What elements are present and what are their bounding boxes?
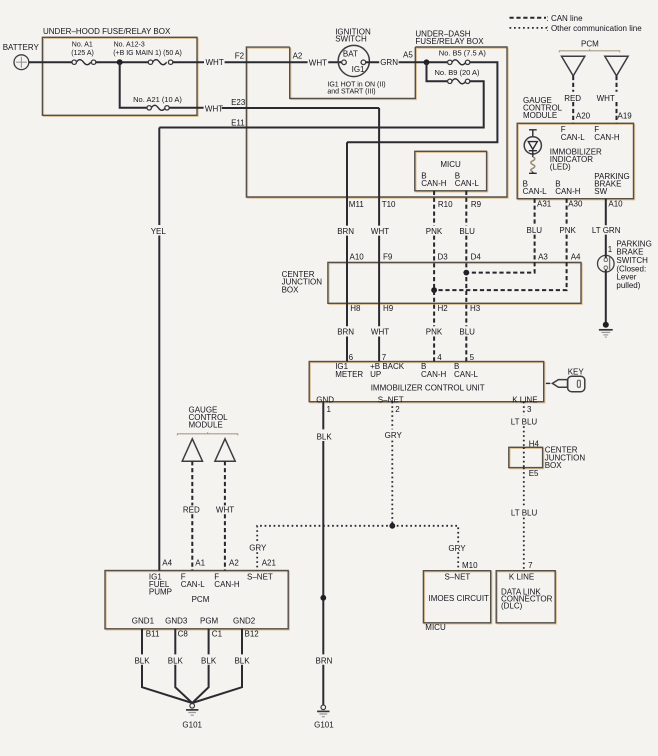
svg-text:H9: H9: [383, 304, 394, 313]
svg-text:K LINE: K LINE: [512, 396, 537, 405]
svg-text:2: 2: [395, 405, 400, 414]
svg-text:GND1: GND1: [132, 617, 155, 626]
svg-text:WHT: WHT: [371, 227, 389, 236]
svg-text:BOX: BOX: [545, 461, 563, 470]
PCM box (bottom): [105, 571, 288, 629]
wire A21 branch from junction: [120, 62, 147, 108]
svg-text:F2: F2: [235, 52, 245, 61]
svg-text:7: 7: [528, 561, 533, 570]
svg-text:BLK: BLK: [168, 656, 184, 665]
svg-text:PCM: PCM: [581, 39, 599, 48]
svg-text:WHT: WHT: [216, 506, 234, 515]
svg-text:LT BLU: LT BLU: [511, 509, 538, 518]
wire PNK MICU R10 to pin 4 (CAN): [433, 191, 435, 362]
wire LT BLU K LINE pin 3 to H4 (other comm): [523, 402, 525, 448]
wire B9 branch: [427, 62, 448, 81]
svg-text:E23: E23: [231, 98, 246, 107]
svg-text:D4: D4: [471, 253, 482, 262]
under-hood fuse/relay box: [42, 37, 197, 115]
svg-text:C8: C8: [178, 629, 189, 638]
svg-text:6: 6: [349, 353, 354, 362]
svg-text:B12: B12: [245, 629, 260, 638]
svg-text:G101: G101: [182, 720, 202, 729]
immobilizer control unit box: [309, 362, 544, 402]
wire WHT gauge control module to PCM A2 (CAN): [224, 461, 226, 570]
wire BLU MICU R9 to pin 5 (CAN): [465, 191, 467, 362]
wire fuse B9 output to E11 YEL feed: [159, 81, 483, 127]
svg-text:SWITCH: SWITCH: [335, 35, 367, 44]
wire YEL E11 down to PCM IG1 FUEL PUMP A4: [158, 128, 160, 571]
wire BLU A31 to A3 (CAN): [466, 199, 534, 273]
svg-text:F9: F9: [383, 253, 393, 262]
svg-text:YEL: YEL: [151, 227, 167, 236]
svg-text:No. A21 (10 A): No. A21 (10 A): [133, 95, 182, 104]
svg-text:(+B IG MAIN 1) (50 A): (+B IG MAIN 1) (50 A): [113, 50, 182, 57]
svg-text:WHT: WHT: [597, 94, 615, 103]
svg-text:and START (III): and START (III): [327, 89, 375, 96]
svg-text:R9: R9: [471, 200, 482, 209]
svg-text:A4: A4: [162, 558, 172, 567]
svg-text:FUSE/RELAY BOX: FUSE/RELAY BOX: [415, 37, 484, 46]
svg-text:A2: A2: [229, 558, 239, 567]
ground G101 right: [317, 705, 329, 717]
svg-text:No. B9 (20 A): No. B9 (20 A): [435, 68, 481, 77]
BOXES: [44, 38, 635, 629]
center junction box: [328, 262, 581, 303]
wire BLK PCM C8 to G101: [175, 629, 192, 703]
svg-text:A20: A20: [576, 112, 591, 121]
svg-text:WHT: WHT: [206, 58, 224, 67]
svg-text:CAN-L: CAN-L: [454, 370, 479, 379]
ground G101 left: [186, 704, 198, 716]
svg-text:BLK: BLK: [317, 432, 333, 441]
fuse A1: [72, 60, 96, 65]
svg-text:PGM: PGM: [200, 617, 219, 626]
svg-text:BLK: BLK: [234, 656, 250, 665]
svg-text:BLU: BLU: [459, 227, 475, 236]
svg-text:(DLC): (DLC): [501, 602, 523, 611]
svg-text:IMOES CIRCUIT: IMOES CIRCUIT: [429, 594, 490, 603]
svg-text:No. B5 (7.5 A): No. B5 (7.5 A): [439, 49, 487, 58]
MICU box (top): [415, 151, 487, 191]
wire parking brake switch to ground: [605, 255, 607, 323]
svg-text:3: 3: [527, 405, 532, 414]
wire BLK immobilizer GND pin 1 to G101: [322, 402, 324, 705]
svg-text:D3: D3: [438, 253, 449, 262]
svg-text:PCM: PCM: [192, 595, 210, 604]
svg-text:BRN: BRN: [316, 656, 333, 665]
op-amp style triangle gauge control module CAN-H: [215, 439, 235, 461]
svg-text:IMMOBILIZER CONTROL UNIT: IMMOBILIZER CONTROL UNIT: [371, 384, 485, 393]
wire BLK PCM B12 to G101: [192, 629, 242, 703]
svg-text:R10: R10: [438, 200, 453, 209]
svg-text:MICU: MICU: [440, 160, 461, 169]
svg-text:S–NET: S–NET: [445, 572, 471, 581]
junction under-hood feed: [117, 59, 123, 65]
svg-text:METER: METER: [335, 370, 363, 379]
wire WHT fuse A21 to E23/T10: [169, 107, 379, 109]
DASHES: [192, 18, 616, 571]
data link connector (DLC) box: [496, 571, 555, 623]
svg-text:GND2: GND2: [233, 617, 256, 626]
svg-text:GRY: GRY: [385, 431, 403, 440]
svg-text:E5: E5: [529, 469, 539, 478]
svg-text:4: 4: [437, 353, 442, 362]
wire GRY S-NET to PCM A21 (other comm): [257, 526, 392, 571]
svg-text:PNK: PNK: [559, 226, 576, 235]
svg-text:CAN-L: CAN-L: [561, 133, 586, 142]
wire fuse B5 output down-left to M11: [347, 62, 497, 142]
svg-text:H3: H3: [470, 304, 481, 313]
svg-text:UP: UP: [370, 370, 381, 379]
junction A5 node: [424, 59, 430, 65]
center junction box H4/E5 (small): [509, 447, 543, 467]
svg-text:BOX: BOX: [282, 285, 300, 294]
junction CAN-H net in center junction box: [431, 287, 437, 293]
op-amp style triangle gauge control module CAN-L: [182, 439, 202, 461]
wire BRN M11 down to IG1 METER pin 6: [346, 142, 348, 361]
svg-text:A1: A1: [195, 558, 205, 567]
svg-text:A19: A19: [618, 112, 633, 121]
svg-text:A2: A2: [293, 52, 303, 61]
svg-text:S–NET: S–NET: [378, 396, 404, 405]
svg-text:WHT: WHT: [205, 105, 223, 114]
junction on BLK ground wire: [320, 595, 326, 601]
bracket gauge control module: [177, 432, 237, 435]
svg-text:MODULE: MODULE: [189, 421, 223, 430]
svg-text:(125 A): (125 A): [71, 50, 94, 57]
wire RED PCM to A20 (CAN): [572, 76, 574, 123]
svg-text:MODULE: MODULE: [523, 111, 557, 120]
wire PNK A30 to A4 (CAN): [434, 199, 566, 290]
svg-text:M11: M11: [349, 200, 365, 209]
svg-text:GRY: GRY: [448, 544, 466, 553]
ignition switch circle: [338, 45, 369, 76]
svg-text:C1: C1: [212, 629, 223, 638]
svg-text:CAN-H: CAN-H: [555, 187, 581, 196]
svg-text:A10: A10: [350, 253, 365, 262]
wire LT BLU through center junction box (other comm): [523, 447, 525, 467]
battery BATTERY: [14, 55, 29, 70]
svg-text:BRN: BRN: [337, 328, 354, 337]
key stub wire: [546, 382, 550, 384]
svg-text:BRN: BRN: [337, 227, 354, 236]
wire fuse A1 to fuse A12-3: [96, 61, 149, 63]
parking brake switch: [598, 255, 615, 272]
svg-text:BLU: BLU: [459, 328, 475, 337]
legend CAN line sample: [510, 17, 547, 19]
svg-text:GRN: GRN: [380, 58, 398, 67]
dash harness / under-dash compound box outline: [246, 47, 507, 197]
box shadow tint: [44, 38, 199, 116]
fuse A12-3: [148, 60, 173, 65]
svg-text:: Other communication line: : Other communication line: [547, 24, 643, 33]
svg-text:A4: A4: [571, 253, 581, 262]
svg-text:B11: B11: [146, 629, 160, 638]
svg-text:GND3: GND3: [165, 617, 188, 626]
svg-text:K LINE: K LINE: [509, 572, 534, 581]
wire A5 into under-dash box: [427, 61, 448, 63]
svg-text:CAN-L: CAN-L: [181, 580, 206, 589]
wire GRY S-NET to MICU M10 (other comm): [392, 526, 458, 571]
svg-text:MICU: MICU: [425, 623, 446, 632]
wire WHT PCM to A19 (CAN): [616, 76, 618, 123]
svg-text:E11: E11: [231, 119, 245, 128]
svg-text:S–NET: S–NET: [247, 572, 273, 581]
svg-text:WHT: WHT: [309, 58, 327, 67]
wire WHT T10 down to +B BACK UP pin 7: [378, 108, 380, 362]
key symbol KEY: [552, 376, 584, 392]
svg-text:H8: H8: [350, 304, 361, 313]
svg-text:H2: H2: [438, 304, 449, 313]
svg-text:BLK: BLK: [134, 656, 150, 665]
wire GRY S-NET pin 2 (other comm): [391, 402, 393, 526]
legend other communication line sample: [510, 27, 548, 29]
LED symbol immobilizer indicator: [524, 130, 541, 174]
svg-text:A5: A5: [403, 51, 413, 60]
svg-text:PUMP: PUMP: [149, 587, 172, 596]
fuse A21: [147, 105, 169, 110]
svg-text:UNDER–HOOD FUSE/RELAY BOX: UNDER–HOOD FUSE/RELAY BOX: [43, 27, 171, 36]
ignition switch channel outline: [290, 47, 416, 98]
svg-text:5: 5: [470, 353, 475, 362]
fuse B9: [448, 79, 470, 84]
svg-text:LT BLU: LT BLU: [511, 417, 538, 426]
bracket PCM: [559, 49, 620, 52]
svg-text:A21: A21: [262, 558, 277, 567]
svg-text:No. A12-3: No. A12-3: [114, 42, 145, 49]
wire battery to fuse A1: [29, 61, 73, 63]
wire GRN ignition to A5: [366, 61, 427, 63]
svg-text:: CAN line: : CAN line: [547, 14, 584, 23]
svg-text:GRY: GRY: [249, 544, 267, 553]
gauge control module box: [517, 123, 633, 198]
svg-text:IG1 HOT in ON (II): IG1 HOT in ON (II): [327, 81, 385, 88]
svg-text:A31: A31: [537, 199, 552, 208]
svg-text:T10: T10: [382, 200, 396, 209]
wire WHT fuse A12-3 to F2/A2: [173, 61, 342, 63]
svg-text:A3: A3: [538, 253, 548, 262]
svg-text:CAN-L: CAN-L: [455, 179, 480, 188]
svg-text:CAN-H: CAN-H: [421, 370, 447, 379]
svg-text:pulled): pulled): [616, 281, 640, 290]
svg-text:No. A1: No. A1: [72, 42, 93, 49]
svg-text:A10: A10: [608, 199, 623, 208]
svg-text:BLK: BLK: [201, 656, 217, 665]
svg-text:KEY: KEY: [568, 368, 585, 377]
svg-text:(LED): (LED): [550, 162, 571, 171]
ground parking brake switch: [599, 322, 613, 337]
svg-text:LT GRN: LT GRN: [592, 226, 621, 235]
svg-text:SW: SW: [594, 187, 607, 196]
junction S-NET net: [389, 523, 395, 529]
op-amp style triangle PCM CAN-L driver: [562, 56, 585, 76]
svg-text:1: 1: [327, 405, 332, 414]
svg-text:BAT: BAT: [343, 50, 358, 59]
svg-text:RED: RED: [183, 506, 200, 515]
wire RED gauge control module to PCM A1 (CAN): [191, 461, 193, 570]
svg-text:G101: G101: [314, 720, 334, 729]
svg-text:CAN-H: CAN-H: [421, 179, 447, 188]
svg-text:RED: RED: [564, 94, 581, 103]
IMOES circuit box (MICU): [423, 571, 490, 623]
op-amp style triangle PCM CAN-H driver: [605, 56, 628, 76]
svg-text:GND: GND: [316, 396, 334, 405]
svg-text:WHT: WHT: [371, 328, 389, 337]
wire LT BLU E5 to DLC pin 7 (other comm): [523, 468, 525, 571]
svg-text:1: 1: [608, 245, 613, 254]
svg-text:A30: A30: [568, 199, 583, 208]
svg-text:CAN-H: CAN-H: [214, 580, 240, 589]
svg-text:PNK: PNK: [426, 328, 443, 337]
svg-text:BLU: BLU: [527, 226, 543, 235]
svg-text:CAN-H: CAN-H: [594, 133, 620, 142]
svg-text:M10: M10: [462, 561, 478, 570]
wire BLK PCM B11 to G101: [142, 629, 192, 703]
svg-text:BATTERY: BATTERY: [3, 43, 40, 52]
wire BLK PCM C1 to G101: [192, 629, 208, 703]
svg-text:PNK: PNK: [426, 227, 443, 236]
wire LT GRN A10 down to parking brake switch: [605, 199, 607, 256]
junction CAN-L net in center junction box: [463, 270, 469, 276]
svg-text:IG1: IG1: [352, 65, 365, 74]
svg-text:7: 7: [382, 353, 387, 362]
svg-text:CAN-L: CAN-L: [523, 187, 548, 196]
svg-text:H4: H4: [529, 440, 540, 449]
fuse B5: [448, 60, 470, 65]
